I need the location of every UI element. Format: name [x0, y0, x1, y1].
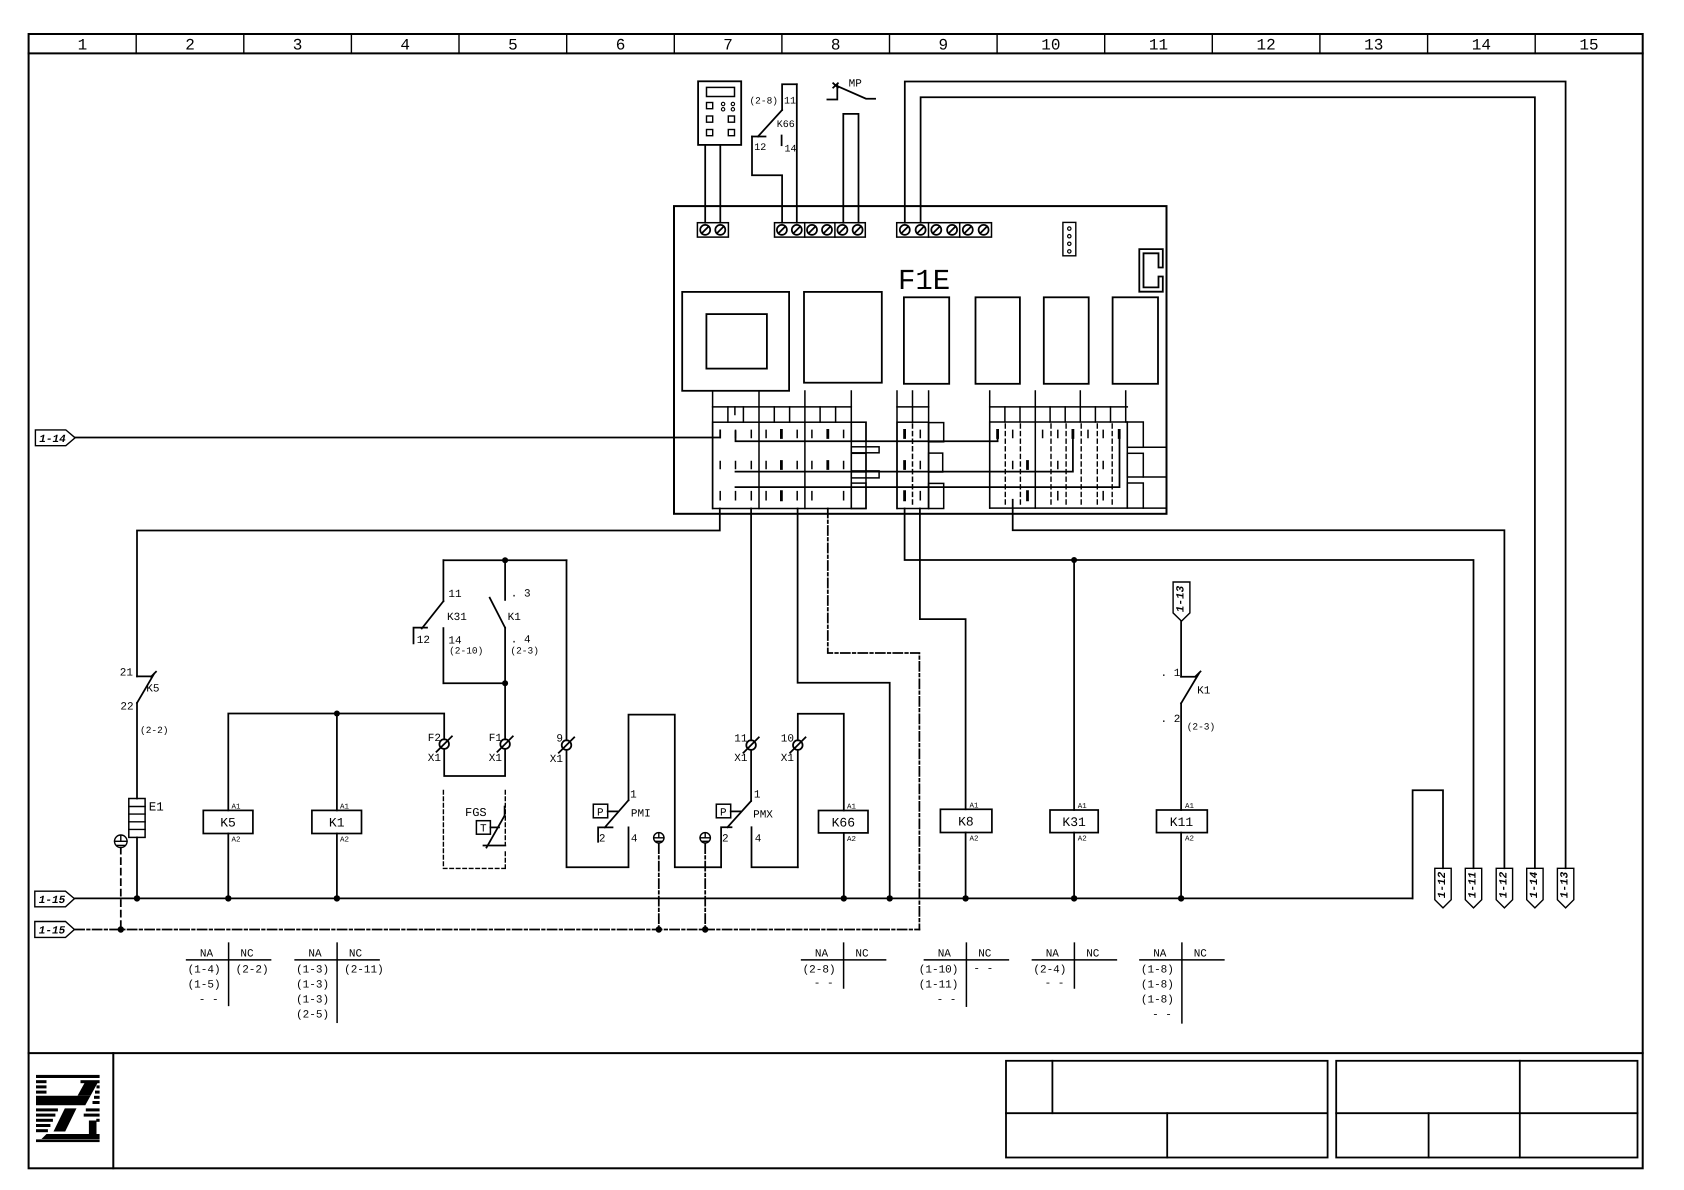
svg-text:5: 5	[508, 37, 518, 55]
svg-text:11: 11	[448, 589, 462, 601]
svg-text:- -: - -	[973, 964, 993, 976]
svg-text:FGS: FGS	[465, 806, 487, 820]
wire connector to relay K8	[920, 509, 966, 810]
svg-text:4: 4	[400, 37, 410, 55]
svg-text:P: P	[597, 808, 604, 820]
connector group right: dashed pin lines	[1005, 424, 1112, 507]
table contacts K31	[1032, 943, 1116, 990]
svg-text:NC: NC	[1194, 949, 1208, 961]
svg-text:8: 8	[831, 37, 841, 55]
svg-text:11: 11	[734, 734, 748, 746]
wire connector to K5 ladder	[137, 509, 720, 677]
svg-text:A1: A1	[847, 804, 857, 812]
svg-text:NA: NA	[200, 949, 214, 961]
contact K5 (21-22)	[120, 668, 169, 737]
node on coil rail	[334, 711, 340, 717]
svg-text:A2: A2	[1185, 835, 1194, 844]
svg-text:MP: MP	[849, 79, 863, 91]
svg-text:(2-11): (2-11)	[344, 965, 384, 977]
relay module 6	[1113, 297, 1158, 384]
wire dash-dot gnd1 to rail 2	[658, 844, 660, 929]
svg-text:4: 4	[631, 834, 638, 846]
svg-text:NA: NA	[1153, 949, 1167, 961]
svg-text:X1: X1	[489, 753, 503, 765]
title block tables bottom right	[1006, 1061, 1638, 1158]
svg-text:14: 14	[785, 145, 797, 156]
node K31 pickup	[1071, 557, 1077, 563]
svg-text:11: 11	[1149, 37, 1168, 55]
svg-text:K31: K31	[447, 612, 467, 624]
svg-text:K8: K8	[958, 815, 974, 830]
svg-text:X1: X1	[781, 753, 795, 765]
svg-text:F1: F1	[489, 733, 503, 745]
svg-text:K5: K5	[220, 816, 236, 831]
svg-text:1: 1	[630, 790, 637, 802]
svg-text:. 3: . 3	[511, 589, 531, 601]
connector group middle: pins	[905, 424, 921, 507]
svg-text:(2-10): (2-10)	[449, 646, 483, 657]
svg-text:(1-3): (1-3)	[296, 965, 329, 977]
svg-text:1-12: 1-12	[1498, 871, 1510, 898]
fuse F2	[428, 733, 452, 765]
svg-text:1-15: 1-15	[39, 926, 66, 938]
flag 1-15 rail2	[35, 922, 75, 938]
svg-text:A1: A1	[232, 804, 242, 812]
svg-text:9: 9	[556, 734, 563, 746]
wire fuse9 chain to PMI pin4	[567, 560, 629, 867]
svg-text:(2-4): (2-4)	[1033, 965, 1066, 977]
wire connector down to node at rail 1	[798, 509, 890, 899]
relay coil K66	[819, 804, 869, 845]
svg-text:11: 11	[784, 97, 796, 108]
svg-text:(2-2): (2-2)	[236, 965, 269, 977]
contact K1 (3-4)	[490, 560, 539, 683]
svg-text:E1: E1	[149, 801, 164, 815]
wire keypad to terminals	[705, 145, 720, 223]
node top K1 pin3	[502, 557, 508, 563]
relay coil K1	[312, 804, 362, 845]
fuse 9	[550, 734, 574, 767]
svg-text:X1: X1	[734, 753, 748, 765]
svg-text:(2-3): (2-3)	[1187, 722, 1216, 733]
wire terminal to flag 1-14 (top)	[921, 97, 1535, 868]
svg-text:(1-4): (1-4)	[188, 965, 221, 977]
svg-text:. 2: . 2	[1161, 714, 1181, 726]
svg-text:3: 3	[293, 37, 303, 55]
svg-text:1: 1	[78, 37, 88, 55]
svg-text:K31: K31	[1062, 815, 1086, 830]
svg-text:A2: A2	[1078, 835, 1087, 844]
connector group right: pins	[998, 430, 1120, 499]
table contacts K5	[187, 943, 271, 1006]
wire dashed ground to rail 2	[120, 848, 122, 930]
svg-text:NC: NC	[855, 949, 869, 961]
svg-text:2: 2	[185, 37, 195, 55]
flag 1-13 source above K11	[1173, 582, 1190, 621]
thermal contact MP	[827, 79, 875, 100]
connector J5 (4-pin header)	[1063, 222, 1076, 255]
svg-text:X1: X1	[550, 754, 564, 766]
pressure switch PMI	[593, 715, 721, 868]
rail 1 nodes	[134, 895, 1185, 901]
svg-text:6: 6	[616, 37, 626, 55]
wire K5 to E1	[136, 703, 138, 799]
svg-text:A1: A1	[1185, 803, 1195, 811]
terminal block XA (2 screws)	[697, 223, 728, 237]
wire bus 1 inside F1E	[736, 431, 998, 441]
wire K5 coil to rail 1	[227, 834, 229, 899]
wire dash-dot connector to rail 2	[828, 509, 920, 930]
svg-text:(2-2): (2-2)	[140, 725, 169, 736]
svg-text:10: 10	[781, 734, 794, 746]
svg-text:2: 2	[599, 834, 606, 846]
svg-text:(1-8): (1-8)	[1141, 965, 1174, 977]
transformer module T1	[682, 292, 789, 391]
ground PE 1	[654, 833, 664, 843]
svg-text:1: 1	[754, 790, 761, 802]
wire from flag 1-14 into connector	[75, 430, 720, 437]
wire fuse 10 to coil K66	[798, 714, 844, 867]
wire F2 to F1 bottom U	[444, 749, 505, 776]
svg-text:K5: K5	[146, 684, 159, 696]
ground PE 2	[700, 833, 710, 843]
wire rail1 end to flag 1-12	[1413, 790, 1443, 898]
svg-text:22: 22	[120, 702, 133, 714]
svg-text:(1-3): (1-3)	[296, 995, 329, 1007]
wire K31 coil to rail1	[1073, 833, 1075, 899]
svg-text:7: 7	[723, 37, 733, 55]
svg-text:(2-8): (2-8)	[749, 96, 778, 107]
fuse F1	[489, 733, 513, 765]
svg-text:K66: K66	[777, 120, 795, 131]
wire K8 coil to rail1	[965, 833, 967, 899]
svg-text:13: 13	[1364, 37, 1383, 55]
svg-text:- -: - -	[1152, 1010, 1172, 1022]
svg-text:12: 12	[754, 143, 766, 154]
svg-text:(2-3): (2-3)	[510, 646, 539, 657]
svg-text:T: T	[480, 824, 487, 836]
switch FGS (dashed enclosure)	[443, 791, 505, 869]
svg-text:NA: NA	[938, 949, 952, 961]
rail 2 dash-dot	[75, 929, 919, 931]
svg-text:PMX: PMX	[753, 810, 773, 822]
svg-text:(1-11): (1-11)	[919, 980, 959, 992]
relay module 4	[976, 297, 1020, 384]
connector group left: frame and comb	[713, 391, 880, 509]
connector group right: frame and comb	[990, 391, 1167, 508]
ruler column numbers 1-15	[78, 37, 1599, 55]
svg-text:1-13: 1-13	[1560, 871, 1572, 898]
svg-text:X1: X1	[428, 753, 442, 765]
svg-text:A1: A1	[970, 803, 980, 811]
wire parallel bus K31/K1 contacts	[443, 560, 566, 683]
svg-text:- -: - -	[1045, 978, 1065, 990]
svg-text:NA: NA	[815, 949, 829, 961]
terminal block XC (6 screws)	[897, 223, 992, 237]
svg-text:1-15: 1-15	[39, 895, 66, 907]
svg-text:A2: A2	[847, 835, 856, 844]
table contacts K11	[1140, 943, 1224, 1023]
bottom flags 1-12 1-11 1-12 1-14 1-13	[1435, 868, 1574, 908]
svg-text:PMI: PMI	[631, 809, 651, 821]
wire terminal to flag 1-13 (top)	[905, 82, 1566, 869]
svg-text:15: 15	[1579, 37, 1598, 55]
ruler column ticks	[136, 34, 1535, 53]
svg-text:(1-5): (1-5)	[188, 980, 221, 992]
svg-text:(1-3): (1-3)	[296, 980, 329, 992]
relay coil K31	[1050, 803, 1098, 844]
wire K11 coil to rail1	[1180, 833, 1182, 899]
svg-text:- -: - -	[199, 995, 219, 1007]
table contacts K66	[802, 943, 886, 990]
contact K1 (right instance)	[1161, 621, 1216, 810]
connector group middle: frame and comb	[897, 391, 944, 509]
svg-text:21: 21	[120, 668, 134, 680]
pressure switch PMX	[716, 750, 798, 867]
svg-text:NC: NC	[240, 949, 254, 961]
svg-text:P: P	[720, 808, 727, 820]
rail 2 nodes	[118, 926, 709, 932]
relay module 3	[904, 297, 949, 384]
svg-text:(2-5): (2-5)	[296, 1010, 329, 1022]
svg-text:K11: K11	[1170, 815, 1194, 830]
svg-text:NA: NA	[308, 949, 322, 961]
wire K66 coil to rail1	[843, 833, 845, 899]
svg-text:A2: A2	[232, 836, 241, 845]
bracket icon	[1139, 249, 1163, 292]
svg-text:A2: A2	[970, 835, 979, 844]
table contacts K8	[919, 943, 1009, 1006]
connector group left: pins	[720, 430, 843, 499]
flag 1-15 rail1	[35, 891, 75, 907]
svg-text:A2: A2	[340, 836, 349, 845]
svg-text:K1: K1	[508, 612, 522, 624]
wire F1 up to K31/K1	[504, 683, 506, 739]
logo Z stripes	[36, 1075, 100, 1142]
rail 1	[75, 897, 1413, 899]
svg-text:NC: NC	[1086, 949, 1100, 961]
svg-text:14: 14	[1472, 37, 1491, 55]
ground PE at E1	[115, 835, 128, 848]
svg-text:12: 12	[1256, 37, 1275, 55]
relay coil K5	[203, 804, 253, 845]
fuse 10	[781, 734, 806, 766]
wire bus 2 inside F1E	[736, 431, 1073, 471]
wire to K31 coil	[1073, 560, 1075, 810]
svg-text:NA: NA	[1046, 949, 1060, 961]
fuse 11	[734, 734, 759, 766]
svg-text:4: 4	[755, 834, 762, 846]
wire connector to K31 branch and flag 1-11	[905, 509, 1474, 869]
module 2	[804, 292, 882, 383]
svg-text:F2: F2	[428, 733, 441, 745]
control unit F1E box	[674, 206, 1167, 514]
terminal block XB (6 screws)	[775, 223, 866, 237]
svg-text:12: 12	[417, 635, 430, 647]
relay module 5	[1044, 297, 1089, 384]
svg-text:. 1: . 1	[1161, 668, 1181, 680]
wire K1 coil to rail 1	[336, 834, 338, 899]
svg-text:F1E: F1E	[898, 265, 950, 298]
contact K66 (top, changeover)	[749, 84, 796, 223]
wire connector to flag 1-12b	[1013, 500, 1505, 869]
wire top rail of coils K5 K1 to fuse F2	[228, 714, 444, 811]
svg-text:10: 10	[1041, 37, 1060, 55]
contact K31 (11-14)	[414, 560, 484, 683]
svg-text:1-13: 1-13	[1176, 585, 1188, 612]
svg-text:NC: NC	[349, 949, 363, 961]
svg-text:1-11: 1-11	[1468, 872, 1480, 898]
svg-text:K1: K1	[1197, 686, 1211, 698]
wire E1 to rail 1	[136, 837, 138, 898]
svg-text:(1-8): (1-8)	[1141, 995, 1174, 1007]
svg-text:1-12: 1-12	[1437, 871, 1449, 898]
svg-text:A1: A1	[340, 804, 350, 812]
svg-text:(2-8): (2-8)	[803, 965, 836, 977]
svg-text:A1: A1	[1078, 803, 1088, 811]
table contacts K1	[295, 943, 384, 1022]
svg-text:9: 9	[938, 37, 948, 55]
svg-text:(1-10): (1-10)	[919, 965, 959, 977]
svg-text:1-14: 1-14	[39, 434, 66, 446]
relay coil K8	[940, 803, 992, 844]
relay coil K11	[1157, 803, 1208, 844]
svg-text:1-14: 1-14	[1529, 871, 1541, 898]
heater E1	[129, 799, 164, 838]
wire bus 3 inside F1E	[736, 431, 1120, 487]
svg-text:K66: K66	[832, 816, 855, 831]
wire MP cable pair	[843, 114, 858, 223]
flag 1-14 left	[35, 430, 75, 446]
node bottom K1 pin4	[502, 680, 508, 686]
keypad display unit	[698, 81, 741, 145]
svg-text:(1-8): (1-8)	[1141, 980, 1174, 992]
wire connector down to PMX fuse 11	[750, 509, 752, 741]
svg-text:K1: K1	[329, 816, 345, 831]
svg-text:- -: - -	[814, 978, 834, 990]
wire dash-dot gnd2 to rail 2	[704, 844, 706, 929]
svg-text:2: 2	[722, 834, 729, 846]
svg-text:NC: NC	[978, 949, 992, 961]
svg-text:- -: - -	[937, 995, 957, 1007]
